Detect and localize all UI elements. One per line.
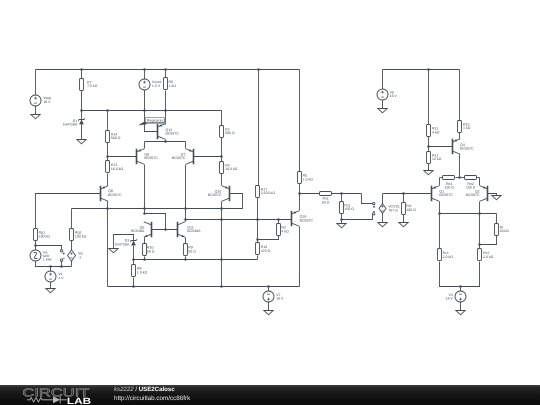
value label R3 [225, 127, 235, 135]
wire R3 to R4 [221, 138, 223, 162]
svg-text:1 kHz: 1 kHz [43, 258, 52, 262]
wire V3 to ground [460, 303, 462, 311]
voltage source V7 16V [263, 291, 274, 302]
wire V6 to ground [382, 101, 384, 109]
dependent source VCVS1 [379, 204, 386, 214]
wire D3 cathode to ground [114, 235, 134, 249]
svg-text:BC557C: BC557C [108, 193, 122, 197]
value label R11 [432, 127, 440, 135]
node Q8 collector/input rail [106, 207, 109, 210]
ground below VCVS1 [378, 223, 387, 227]
svg-text:7.5 kΩ: 7.5 kΩ [87, 84, 98, 88]
wire rail to V7 [268, 287, 270, 292]
resistor Re1 [443, 176, 455, 180]
wire Q8 base to Rg1 [36, 194, 101, 229]
transistor Q10 [222, 186, 230, 202]
value label R6 [169, 80, 177, 88]
wire In2 to rail [71, 261, 73, 267]
resistor R4 [220, 162, 224, 174]
wire R2 to R16 node [258, 236, 279, 240]
label Q1 BC557C [439, 189, 453, 197]
wire rail to Rl [496, 214, 498, 224]
node Rs1/R11 [340, 192, 343, 195]
resistor R13 [106, 161, 110, 173]
ground below V6 [378, 109, 387, 113]
node R10/rail [143, 258, 146, 261]
wire R16 to mirror rail [257, 256, 259, 260]
wire rail to R7 [81, 70, 83, 79]
wire rail to R11 [428, 70, 430, 125]
wire node to R11 [341, 194, 343, 202]
wire VCVS output up [382, 194, 384, 204]
voltage source Vsup 16V [30, 95, 41, 106]
node Q12 collector/emitter rail [164, 140, 167, 143]
wire node to Rd [403, 194, 405, 203]
label Rs1 [322, 196, 330, 204]
wire node to Q16 emitter [299, 194, 301, 211]
wire to In2 + input [36, 246, 62, 250]
node R2 elbow [256, 238, 259, 241]
wire Q10 base-collector loop [222, 194, 243, 209]
node Vs [49, 265, 52, 268]
voltage source V6 16V [377, 89, 388, 100]
svg-text:BC557C: BC557C [172, 156, 186, 160]
svg-text:BC557C: BC557C [466, 193, 480, 197]
label In1 [43, 251, 52, 262]
svg-text:2.525 kΩ: 2.525 kΩ [261, 191, 276, 195]
wire Q16 collector to -16V rail [299, 227, 301, 287]
resistor R16 [256, 243, 260, 255]
node Q10 tie [220, 207, 223, 210]
ground below V7 [264, 311, 273, 315]
value label R5 [303, 174, 314, 182]
wire R14 to R13 [107, 143, 109, 161]
wire bias node line [82, 110, 222, 112]
node R11/R12/Q4 base [427, 145, 430, 148]
wire Q8 collector down to -16V rail [107, 202, 109, 287]
node In2 - input [60, 265, 63, 268]
voltage source Vs 1V [45, 271, 56, 282]
svg-text:16.0 kΩ: 16.0 kΩ [111, 167, 124, 171]
node Rg1/In1/In2+ [34, 244, 37, 247]
svg-text:20 kΩ: 20 kΩ [500, 229, 510, 233]
wire rail to Q6 emitter [144, 142, 146, 149]
wire Q6 collector down [144, 165, 146, 214]
svg-text:1.5 V: 1.5 V [152, 84, 161, 88]
wire right +16V rail [383, 69, 460, 71]
wire shared bases [152, 229, 178, 231]
svg-text:707 m: 707 m [388, 208, 398, 212]
wire R10 to rail [144, 257, 146, 260]
node Rd [402, 192, 405, 195]
wire VCVS - pin to ground node [342, 215, 373, 220]
svg-text:470 Ω: 470 Ω [261, 249, 271, 253]
wire Re2 right [477, 177, 480, 179]
wire Vs to ground [50, 282, 52, 289]
footer url text [114, 395, 190, 402]
wire R10 to Q4 emitter [459, 133, 461, 140]
wire Q10 collector column down [221, 202, 223, 287]
value label Rg1 [39, 231, 51, 239]
value label R16 [261, 245, 271, 253]
resistor R8 [132, 265, 136, 277]
label V7 [276, 293, 284, 301]
transistor Q5 (NPN mirror) [144, 222, 152, 238]
wire In2 - input to rail [61, 262, 63, 267]
wire R7 to D1 node [81, 91, 83, 111]
value label Rc1 [443, 251, 454, 259]
transistor Q4 [453, 139, 461, 155]
svg-text:1N4728A: 1N4728A [63, 123, 78, 127]
wire rail down to R5 [299, 70, 301, 172]
label Q6 BC557C [144, 152, 158, 160]
zener diode D3 [130, 239, 137, 245]
terminal In2 + input [60, 250, 64, 255]
node D3/R8/rail [132, 258, 135, 261]
wire rail to R8 [133, 260, 135, 265]
svg-text:1.0 kΩ: 1.0 kΩ [303, 177, 314, 181]
resistor Rg1 [34, 229, 38, 241]
label Re1 [444, 182, 454, 190]
svg-text:BC557C: BC557C [300, 218, 314, 222]
wire node to D1 cathode [81, 111, 83, 120]
ground below Vsup [31, 115, 40, 119]
node V3 [459, 285, 462, 288]
value label R11 [344, 203, 354, 211]
wire R13 to Q8 emitter [107, 174, 109, 186]
value label R17 [261, 187, 276, 195]
svg-text:2.0 kΩ: 2.0 kΩ [443, 255, 454, 259]
svg-text:100 Ω: 100 Ω [344, 207, 354, 211]
svg-text:16 V: 16 V [43, 100, 51, 104]
ground below V3 [456, 311, 465, 315]
label V3 [446, 293, 454, 301]
wire Q2 base to ground [488, 194, 497, 196]
wire rail to R6 [165, 70, 167, 78]
label Q4 BC557C [460, 143, 474, 151]
node Q2 collector/rail [478, 212, 481, 215]
svg-text:100 kΩ: 100 kΩ [75, 235, 87, 239]
label Q7 BC557C [172, 152, 186, 160]
wire Q7 collector down [185, 165, 187, 222]
ground below Rd [399, 223, 408, 227]
value label R13 [111, 163, 124, 171]
svg-text:12 kΩ: 12 kΩ [432, 157, 442, 161]
wire node to Q12 emitter [165, 111, 167, 125]
svg-text:50 Ω: 50 Ω [322, 200, 330, 204]
value label R4 [225, 163, 238, 171]
wire VCVS to Q1 base [383, 193, 432, 195]
wire Re1 left [440, 177, 443, 179]
value label R2 [281, 226, 289, 234]
resistor R14 [106, 131, 110, 143]
node Re1/Re2 [458, 176, 461, 179]
svg-text:LAB: LAB [67, 396, 92, 405]
svg-text:Regulacja: Regulacja [147, 118, 163, 122]
source In1 sine [30, 250, 41, 261]
wire diff pair emitter rail [145, 141, 186, 143]
ground at Q2 base [492, 196, 501, 200]
wire Q2 collector to Rc2 [479, 202, 481, 249]
wire Q1 collector to Rc1 [439, 202, 441, 249]
wire rail down to R17 [258, 70, 260, 186]
wire Rd to ground [403, 215, 405, 223]
value label R8 [137, 267, 148, 275]
wire R11 to ground [341, 214, 343, 224]
transistor Q12 [158, 124, 166, 140]
resistor R17 [256, 186, 260, 198]
voltage source V3 16V [455, 291, 466, 302]
wire Rg1 to In1 [35, 241, 37, 250]
resistor Rc1 [438, 249, 442, 261]
node Vcont [143, 109, 146, 112]
node rail/R7 [80, 68, 83, 71]
svg-text:16 V: 16 V [390, 94, 398, 98]
wire R11 to R12 [428, 137, 430, 152]
node R14 [106, 109, 109, 112]
transistor Q7 [186, 149, 194, 165]
wire rail to Vs [50, 267, 52, 271]
dependent source In2 [68, 250, 76, 261]
transistor Q2 [480, 186, 488, 202]
label V6 [390, 90, 398, 98]
ground at D3 [109, 249, 118, 253]
svg-text:-1: -1 [78, 255, 81, 259]
node rail/R17 [257, 68, 260, 71]
node R14/R13/Q6 base [106, 155, 109, 158]
wire Q11 emitter to R9 [185, 238, 187, 244]
transistor Q8 [101, 186, 109, 202]
svg-text:16.0 kΩ: 16.0 kΩ [225, 167, 238, 171]
wire Q4 collector to emitter resistors [459, 155, 461, 178]
terminal VCVS1 + input [373, 202, 376, 208]
svg-text:50 Ω: 50 Ω [188, 250, 196, 254]
wire rail to Vcont [144, 70, 146, 79]
label Q16 BC557C [300, 215, 314, 223]
node R17/drive rail [256, 218, 259, 221]
svg-text:4 kΩ: 4 kΩ [281, 229, 289, 233]
wire R17 through drive rail to R16 [257, 198, 259, 243]
wire Rg2 to In2 [71, 241, 73, 250]
wire Vcont to Q12 base [145, 90, 158, 132]
svg-text:BC557C: BC557C [439, 193, 453, 197]
wire node to R14 [107, 111, 109, 131]
ground below R12 [424, 171, 433, 175]
wire node to R3 [221, 111, 223, 126]
resistor R6 [164, 78, 168, 90]
label Q8 BC557C [108, 189, 122, 197]
svg-text:BC557C: BC557C [166, 132, 180, 136]
svg-text:BC557C: BC557C [208, 193, 222, 197]
label Q12 BC557C [166, 128, 180, 136]
resistor Rs1 [320, 192, 332, 196]
ground below D1 [77, 140, 86, 144]
svg-text:BC546A: BC546A [187, 229, 201, 233]
wire V7 to ground [268, 303, 270, 311]
wire D1 anode to ground [81, 125, 83, 140]
wire R9 to rail [185, 257, 187, 260]
CircuitLab logo [0, 385, 110, 405]
node Q1 collector/rail [438, 212, 441, 215]
resistor R9 [184, 244, 188, 256]
wire R6 to node [165, 91, 167, 111]
svg-text:1 V: 1 V [58, 276, 64, 280]
svg-text:4 kΩ: 4 kΩ [432, 130, 440, 134]
resistor R11 (100) [340, 202, 344, 214]
wire input rail [72, 208, 222, 210]
svg-text:16 V: 16 V [276, 297, 284, 301]
resistor Rg2 [70, 229, 74, 241]
value label R10 [463, 122, 471, 130]
wire to Q2 emitter [479, 178, 481, 186]
wire rail to Rg2 [71, 209, 73, 229]
node mirror tie [143, 212, 146, 215]
svg-text:2.0 kΩ: 2.0 kΩ [483, 255, 494, 259]
node R6 [164, 109, 167, 112]
wire V6 up to right rail [382, 70, 384, 89]
value label Rc2 [483, 251, 494, 259]
wire +16V top rail [36, 69, 300, 71]
terminal In2 - input [60, 258, 64, 261]
wire -16V rail [108, 286, 300, 288]
wire to VCVS + pin [362, 194, 373, 204]
node R11/VCVS - [340, 218, 343, 221]
wire Q7 base to R3/R4 node [194, 156, 222, 158]
label Re2 [466, 182, 476, 190]
svg-text:1.0 kΩ: 1.0 kΩ [137, 271, 148, 275]
wire R5 to output node [299, 184, 301, 194]
label VCVS1 [388, 205, 400, 213]
wire Vsup to +16V rail [35, 70, 37, 95]
wire VCVS to ground [382, 214, 384, 223]
wire drive rail to R2 [278, 220, 280, 224]
svg-text:1 kΩ: 1 kΩ [169, 84, 177, 88]
node column/drive rail [220, 218, 223, 221]
label Q2 BC557C [466, 189, 480, 197]
footer title text [114, 386, 175, 393]
svg-text:500 Ω: 500 Ω [111, 136, 121, 140]
wire Vsup to ground [35, 106, 37, 115]
node R2/drive rail [277, 218, 280, 221]
resistor R10 (50) [143, 244, 147, 256]
value label R14 [111, 132, 121, 140]
svg-text:50 Ω: 50 Ω [147, 250, 155, 254]
node column/rail [220, 258, 223, 261]
wire input ground rail [36, 261, 72, 267]
svg-text:BC557C: BC557C [144, 156, 158, 160]
resistor R10 (1k) [458, 121, 462, 133]
node Q6 collector/input rail [143, 207, 146, 210]
node R3/R4/Q7 base [220, 155, 223, 158]
node V7/-16V [267, 285, 270, 288]
label Q10 BC557C [208, 189, 222, 197]
resistor R3 [220, 126, 224, 138]
wire Re1 to Re2 [456, 177, 465, 179]
transistor Q6 [137, 149, 145, 165]
wire R4 to Q10 emitter [221, 174, 223, 186]
node R5/Rs1/Q16 emitter [298, 192, 301, 195]
svg-text:100 kΩ: 100 kΩ [39, 235, 51, 239]
wire Q5 emitter to R10 [144, 238, 146, 244]
label Vcont [152, 80, 161, 88]
node R9/rail [184, 258, 187, 261]
node rail/Vcont [143, 68, 146, 71]
resistor Re2 [465, 176, 477, 180]
label Vs [58, 272, 64, 280]
value label Rd [406, 204, 416, 212]
node Q7 collector/input rail [184, 207, 187, 210]
node rail/R6 [164, 68, 167, 71]
node column/-16V [220, 285, 223, 288]
value label R12 [432, 153, 442, 161]
resistor R2 [277, 224, 281, 236]
resistor R5 [298, 172, 302, 184]
wire D3 anode to rail [133, 246, 135, 260]
svg-text:BC546A: BC546A [131, 229, 145, 233]
svg-text:1N4728A: 1N4728A [114, 243, 129, 247]
transistor Q16 [292, 211, 300, 227]
node Q11 collector/drive rail [184, 218, 187, 221]
value label R9 [188, 246, 196, 254]
resistor R11 (4k) [427, 125, 431, 137]
label Vsup [43, 96, 51, 104]
label Q11 BC546A [187, 225, 201, 233]
svg-text:BC557C: BC557C [460, 147, 474, 151]
wire to Q4 base [429, 146, 453, 148]
wire mirror collector-base tie [145, 214, 166, 230]
wire Rc bottoms to -16V [440, 262, 480, 287]
value label Rg2 [75, 231, 87, 239]
label D1 1N4728A [63, 119, 78, 127]
wire drive rail to Q16 base [186, 219, 292, 221]
zener diode D1 [78, 118, 85, 124]
svg-text:500 Ω: 500 Ω [225, 131, 235, 135]
ground below Vs [46, 289, 55, 293]
node Rl/Rc2 [478, 243, 481, 246]
node R8/-16V [132, 285, 135, 288]
wire rail to R10 [459, 70, 461, 121]
resistor R12 [427, 152, 431, 164]
resistor Rc2 [478, 249, 482, 261]
svg-text:16 V: 16 V [446, 297, 454, 301]
wire Rs1 to VCVS input [332, 193, 362, 195]
value label Rl [500, 225, 510, 233]
annotation Regulacja callout [138, 118, 165, 126]
transistor Q11 [178, 222, 186, 238]
wire R12 to ground [428, 164, 430, 171]
wire mirror bottom rail [134, 259, 258, 261]
resistor R7 [80, 79, 84, 91]
svg-text:100 Ω: 100 Ω [444, 186, 454, 190]
wire rail to V3 [460, 287, 462, 292]
terminal VCVS1 - input [373, 212, 376, 215]
wire Q12 collector to diff pair emitters [165, 140, 167, 142]
svg-text:100 Ω: 100 Ω [406, 208, 416, 212]
node rail/R11 right [427, 68, 430, 71]
value label R7 [87, 80, 98, 88]
footer bar [0, 385, 540, 405]
svg-text:1 kΩ: 1 kΩ [463, 126, 471, 130]
wire rail to Q7 emitter [185, 142, 187, 149]
value label R10 [147, 246, 155, 254]
label In2 [78, 252, 83, 260]
ground below R11 [337, 224, 346, 228]
wire R8 to -16V rail [133, 278, 135, 287]
transistor Q1 [432, 186, 440, 202]
node D1/R7 [80, 109, 83, 112]
wire node to Rs1 [300, 193, 320, 195]
resistor Rl [495, 224, 499, 236]
